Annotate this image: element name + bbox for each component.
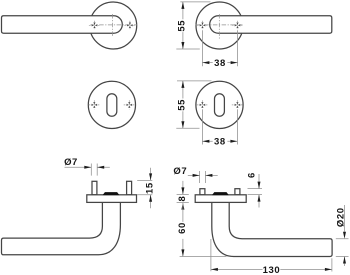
- centerline vertical top-left: [112, 14, 114, 37]
- stud bottom-right, left: [200, 189, 205, 195]
- dimension 6 (bottom-right) dim line: [258, 174, 260, 208]
- dimension 8 (bottom-right) extension lines: [177, 194, 189, 202]
- lever handle bar top-left (plan view): [2, 16, 123, 33]
- rose circle top-right: [196, 2, 243, 49]
- dimension 38 (top-right rose) dim line: [202, 62, 237, 64]
- spindle bottom-right: [212, 192, 229, 195]
- dimension O20 (bottom-right) arrows: [343, 232, 346, 264]
- dimension 55 (top-right rose) dim line: [182, 2, 184, 49]
- dimension 55 (escutcheon) extension lines: [176, 81, 211, 128]
- stud bottom-left, left: [92, 181, 97, 195]
- dimension O7 (bottom-left) leader lines: [65, 164, 110, 176]
- escutcheon circle middle-left: [88, 81, 135, 128]
- dimension O20 (bottom-right) dim line: [344, 205, 346, 266]
- svg-text:55: 55: [177, 99, 188, 111]
- screw top-right rose, left: [197, 21, 208, 30]
- stud bottom-right, right: [235, 189, 240, 195]
- dimension 38 (top-right rose) arrows: [202, 61, 237, 64]
- centerline horizontal top-right: [196, 24, 243, 26]
- dimension 8 (bottom-right) arrows: [181, 187, 184, 209]
- svg-text:6: 6: [247, 172, 258, 178]
- svg-text:Ø20: Ø20: [335, 207, 346, 227]
- dimension 6 (bottom-right) arrows: [258, 182, 261, 202]
- dimension 55 (top-right rose) arrows: [181, 2, 184, 49]
- handle profile bottom-left (side view): [2, 202, 121, 255]
- escutcheon circle middle-right: [196, 81, 243, 128]
- dimension O7 (bottom-left) arrows: [84, 166, 104, 169]
- dimension 130 (bottom-right) arrows: [211, 268, 332, 271]
- dimension 130 (bottom-right) dim line: [211, 268, 332, 270]
- dimension 8 (bottom-right) dim line: [182, 181, 184, 195]
- stud bottom-left, right: [127, 181, 132, 195]
- keyhole oval middle-left: [107, 94, 117, 117]
- screw middle-right escutcheon, right: [232, 100, 243, 109]
- screw top-right rose, right: [232, 21, 243, 30]
- dimension 55 (escutcheon) arrows: [181, 81, 184, 128]
- screw middle-left escutcheon, right: [124, 100, 135, 109]
- svg-text:15: 15: [145, 182, 156, 194]
- rose plate bottom-right (side view): [195, 195, 246, 203]
- keyhole oval middle-right: [215, 94, 225, 117]
- svg-text:Ø7: Ø7: [64, 157, 78, 168]
- dimension 60 (bottom-right) arrows: [181, 249, 184, 256]
- centerline horizontal top-left: [91, 24, 138, 26]
- svg-text:38: 38: [214, 58, 226, 69]
- spindle bottom-left: [103, 192, 120, 195]
- dimension 130 (bottom-right) extension lines: [211, 239, 332, 272]
- svg-text:38: 38: [214, 136, 226, 147]
- svg-text:8: 8: [177, 196, 188, 202]
- dimension 15 (bottom-left) extension lines: [137, 180, 152, 194]
- lever handle bar top-right (plan view): [210, 16, 332, 33]
- dimension 38 (escutcheon) extension lines: [202, 110, 237, 145]
- dimension 38 (top-right rose) extension lines: [202, 30, 237, 66]
- screw top-left rose, right: [124, 21, 135, 30]
- screw middle-left escutcheon, left: [89, 100, 100, 109]
- dimension 15 (bottom-left) arrows: [149, 173, 152, 201]
- svg-text:Ø7: Ø7: [173, 166, 187, 177]
- dimension 55 (top-right rose) extension lines: [176, 2, 210, 49]
- svg-text:55: 55: [177, 20, 188, 32]
- dimension 55 (escutcheon) dim line: [182, 81, 184, 128]
- centerline vertical top-right: [218, 14, 220, 39]
- dimension 60 (bottom-right) dim line: [182, 203, 184, 257]
- handle profile bottom-right (side view): [212, 202, 332, 257]
- dimension 15 (bottom-left) dim line: [150, 168, 152, 208]
- dimension 60 (bottom-right) extension line: [180, 256, 227, 258]
- rose plate bottom-left (side view): [87, 195, 137, 203]
- dimension O7 (bottom-right) arrows: [193, 174, 213, 177]
- dimension 6 (bottom-right) extension lines: [248, 189, 263, 195]
- svg-text:130: 130: [263, 265, 281, 275]
- dimension O7 (bottom-right) leader lines: [188, 171, 218, 183]
- dimension 38 (escutcheon) dim line: [202, 140, 237, 142]
- rose circle top-left: [90, 2, 137, 49]
- dimension O20 (bottom-right) extension lines: [336, 239, 349, 257]
- screw middle-right escutcheon, left: [197, 100, 208, 109]
- screw top-left rose, left: [89, 21, 100, 30]
- dimension 38 (escutcheon) arrows: [202, 140, 237, 143]
- svg-text:60: 60: [177, 222, 188, 234]
